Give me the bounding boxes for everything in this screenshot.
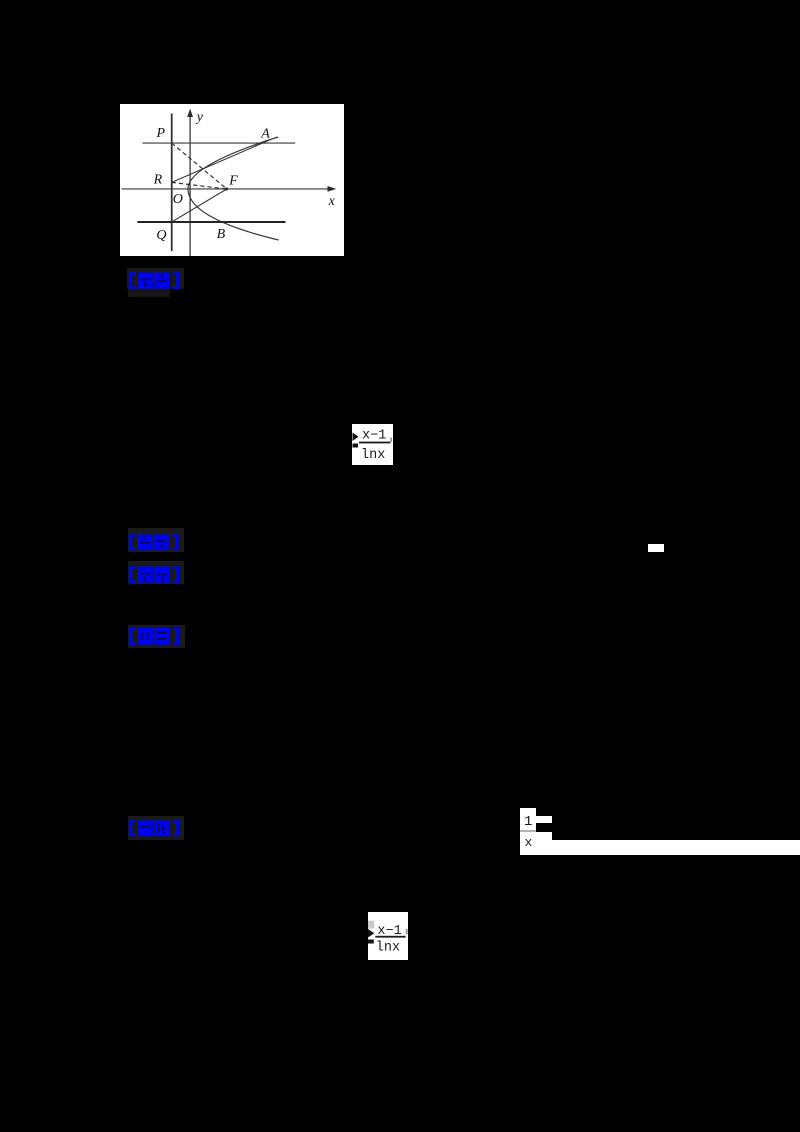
dashed segment R to F (171, 182, 226, 189)
answer label 5 halo (128, 816, 185, 840)
segment Q to F (171, 189, 226, 222)
svg-text:x: x (327, 194, 335, 209)
figure: parabola diagram white panel (120, 104, 345, 257)
svg-text:lnx: lnx (361, 448, 385, 463)
small white equation fragment (648, 544, 664, 552)
svg-text:F: F (228, 173, 238, 188)
svg-text:P: P (155, 126, 165, 141)
dashed segment P to F (171, 143, 226, 189)
answer label 5 (blue) (128, 820, 180, 837)
fraction 1/x group: right tab (536, 816, 552, 823)
svg-text:B: B (216, 226, 225, 241)
svg-text:Q: Q (156, 228, 166, 243)
svg-text:lnx: lnx (376, 940, 400, 955)
answer label 3 halo (128, 561, 184, 585)
bottom horizontal line through Q and B (137, 221, 285, 223)
answer label 2 (blue) (128, 534, 179, 551)
parabola upper branch (188, 137, 278, 189)
parabola lower branch (188, 188, 279, 239)
svg-text:R: R (152, 172, 162, 187)
x-axis arrowhead (327, 186, 336, 192)
directrix vertical line (170, 113, 172, 251)
fraction 1/x group: denominator cell (520, 832, 552, 855)
svg-text:O: O (172, 191, 182, 206)
focus point F dot (225, 187, 228, 190)
answer label 2 halo (128, 528, 184, 552)
long white band (552, 840, 800, 856)
top horizontal line through P and A (142, 142, 295, 144)
fraction 1/x group: numerator cell (520, 808, 536, 832)
segment R to A (171, 139, 269, 182)
svg-text:A: A (260, 126, 270, 141)
fraction box (x-1)/lnx #1 (352, 424, 393, 465)
svg-text:y: y (194, 110, 203, 125)
x-axis (121, 187, 332, 189)
answer label 4 (blue) (128, 627, 180, 645)
answer label 1 (blue) (128, 272, 180, 289)
y-axis (189, 113, 191, 257)
answer label 1 halo (127, 268, 184, 289)
y-axis arrowhead (187, 108, 193, 116)
svg-text:x−1: x−1 (362, 428, 386, 443)
answer label 4 halo (128, 625, 185, 648)
fraction box (x-1)/lnx #2 (368, 912, 408, 960)
answer label 3 (blue) (128, 566, 180, 583)
